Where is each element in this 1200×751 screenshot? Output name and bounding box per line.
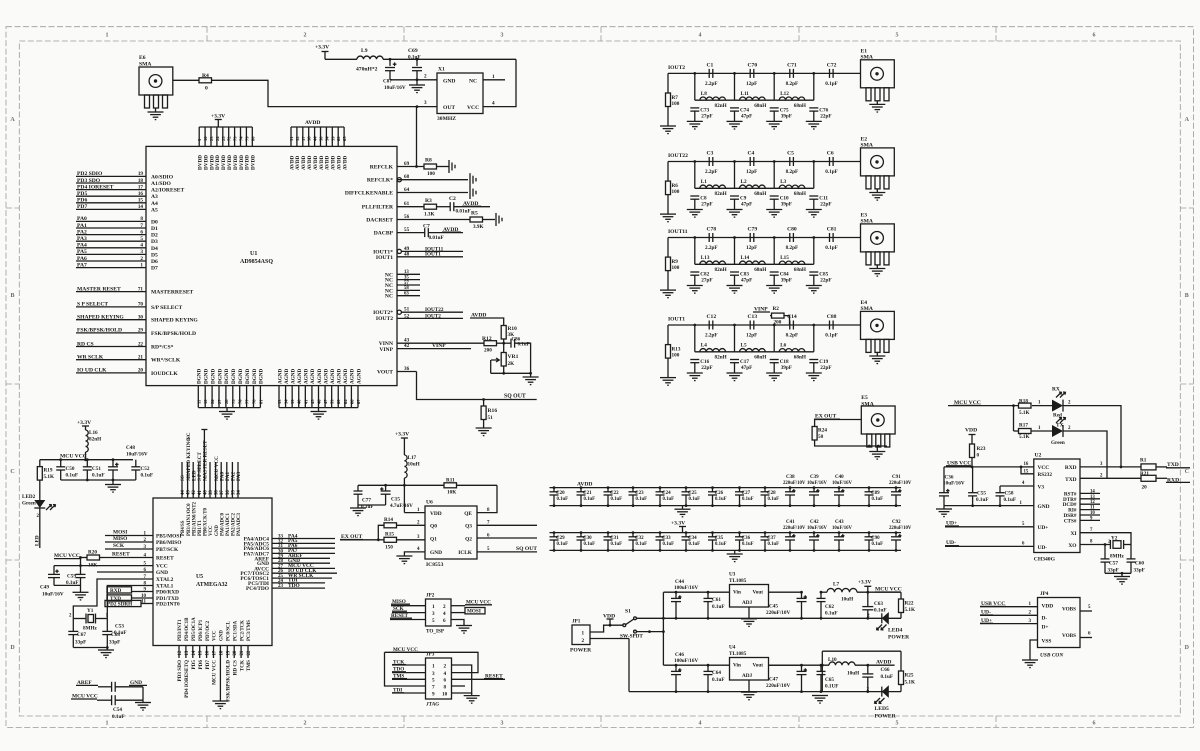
svg-text:PD7/OC2: PD7/OC2 [206, 620, 211, 641]
ground [806, 372, 822, 374]
svg-text:0.1uF: 0.1uF [557, 497, 569, 502]
svg-text:2: 2 [140, 256, 143, 262]
svg-text:C31: C31 [610, 536, 619, 541]
svg-text:18: 18 [138, 178, 144, 184]
svg-text:0.1UF: 0.1UF [825, 684, 838, 690]
svg-text:L2: L2 [741, 179, 747, 185]
svg-text:39pF: 39pF [781, 278, 792, 284]
wire [325, 58, 357, 60]
svg-text:0.1uF: 0.1uF [408, 54, 421, 60]
svg-text:AVDD: AVDD [342, 155, 348, 170]
svg-text:D: D [10, 645, 15, 651]
svg-text:XI: XI [1071, 531, 1077, 537]
inductor L14 68nH [740, 261, 766, 264]
svg-text:JP2: JP2 [426, 593, 435, 599]
U1 AGND pins [279, 407, 358, 409]
svg-text:DGND: DGND [238, 368, 244, 384]
U6 pin 5 ICLK [477, 551, 537, 553]
svg-text:41: 41 [198, 490, 203, 495]
wire [39, 508, 41, 548]
svg-text:TXD: TXD [1167, 462, 1179, 468]
U5 pin 44 PB4/SS [181, 462, 183, 498]
U5 pin 18 GND [219, 646, 221, 659]
ground [687, 120, 703, 122]
svg-text:AGND: AGND [277, 368, 283, 384]
svg-text:0.1uF: 0.1uF [584, 497, 596, 502]
svg-text:C60: C60 [1135, 561, 1144, 567]
svg-text:29: 29 [138, 328, 144, 334]
svg-text:PA6: PA6 [77, 256, 87, 262]
svg-text:48: 48 [404, 252, 410, 258]
svg-text:LED5: LED5 [875, 706, 890, 712]
wire [437, 206, 451, 208]
svg-text:40: 40 [297, 399, 302, 404]
svg-text:4: 4 [492, 101, 495, 107]
wire [1105, 572, 1131, 574]
svg-text:D-: D- [1042, 616, 1048, 622]
svg-text:10: 10 [203, 136, 208, 141]
capacitor C72 0.1pF [829, 69, 831, 78]
inductor L5 68nH [740, 349, 766, 352]
svg-text:PC1/SDA: PC1/SDA [233, 620, 238, 641]
capacitor C50 0.1uF [60, 460, 62, 467]
svg-text:68nH: 68nH [794, 267, 806, 273]
svg-text:A0/SDIO: A0/SDIO [151, 174, 174, 180]
svg-text:52: 52 [404, 313, 410, 319]
capacitor C42 10uF/16V [813, 533, 815, 537]
svg-text:5: 5 [432, 678, 435, 684]
svg-text:NC: NC [385, 294, 393, 300]
wire decoupling rail [550, 532, 902, 534]
svg-text:33pF: 33pF [1108, 568, 1119, 574]
U1 pin 18 A1/SDO [76, 182, 146, 184]
svg-text:65: 65 [342, 136, 347, 141]
svg-text:69: 69 [404, 161, 410, 167]
ground [766, 120, 782, 122]
svg-text:28: 28 [224, 399, 229, 404]
svg-text:39: 39 [290, 399, 295, 404]
resistor R15 150 [378, 539, 384, 541]
svg-text:MISO: MISO [113, 536, 127, 542]
inductor L2 68nH [740, 185, 766, 188]
svg-text:B: B [10, 293, 14, 299]
svg-text:S1: S1 [625, 609, 631, 615]
svg-text:R1: R1 [1140, 458, 1147, 464]
svg-text:3.9K: 3.9K [473, 224, 484, 230]
svg-text:+3.3V: +3.3V [671, 521, 685, 527]
svg-text:C22: C22 [610, 491, 619, 496]
svg-text:C43: C43 [835, 520, 844, 525]
ground [727, 120, 743, 122]
svg-text:PB4/SS: PB4/SS [181, 520, 186, 536]
svg-text:27pF: 27pF [701, 202, 712, 208]
svg-text:OUT: OUT [443, 105, 455, 111]
svg-text:71: 71 [138, 286, 144, 292]
inductor L10 10uH [829, 662, 855, 665]
svg-text:73: 73 [233, 136, 238, 141]
svg-text:22pF: 22pF [820, 113, 831, 119]
svg-text:RESET: RESET [156, 556, 174, 562]
resistor R25 5.1K [900, 651, 902, 671]
svg-text:PB0/XCK/T0: PB0/XCK/T0 [204, 507, 209, 536]
wire filter shunt drops [694, 238, 696, 265]
ground [1121, 573, 1123, 576]
svg-text:PB6/MISO: PB6/MISO [156, 540, 181, 546]
wire [515, 343, 531, 373]
capacitor C86 0.1uF [510, 339, 512, 348]
svg-text:16: 16 [1024, 462, 1029, 467]
ground [155, 108, 157, 112]
svg-text:L6: L6 [780, 343, 786, 349]
svg-text:IO UD CLK: IO UD CLK [77, 368, 107, 374]
svg-text:76: 76 [238, 399, 243, 404]
svg-text:ICLK: ICLK [458, 550, 473, 556]
svg-text:33pF: 33pF [75, 640, 86, 646]
wire [857, 591, 901, 593]
capacitor C80 8.2pF [789, 233, 791, 242]
JP4 pin 3 [980, 623, 1038, 625]
svg-text:5: 5 [896, 721, 899, 727]
wire output loop [769, 664, 830, 666]
svg-text:4: 4 [699, 721, 702, 727]
capacitor C89 0.1uF [868, 488, 870, 492]
capacitor C73 27pF [690, 107, 699, 109]
svg-text:PD5: PD5 [191, 660, 197, 670]
svg-text:81: 81 [258, 399, 263, 404]
wire [636, 617, 901, 619]
svg-text:77: 77 [245, 399, 250, 404]
U1 pin 70 S/P SELECT [76, 306, 146, 308]
svg-text:RD CS: RD CS [232, 660, 238, 676]
capacitor C52 0.1uF [135, 460, 137, 467]
inductor L6 68nH [779, 349, 805, 352]
svg-text:5: 5 [896, 33, 899, 39]
svg-text:44: 44 [313, 136, 318, 141]
capacitor C43 10uF/16V [838, 533, 840, 537]
capacitor C3 2.2pF [708, 157, 710, 166]
capacitor C29 0.1uF [553, 533, 555, 537]
svg-text:S P SELECT: S P SELECT [77, 302, 108, 308]
svg-text:R16: R16 [488, 408, 498, 414]
svg-text:10uF/16V: 10uF/16V [807, 481, 828, 486]
wire [61, 479, 136, 481]
svg-text:TXD: TXD [1065, 477, 1076, 483]
svg-text:82nH: 82nH [715, 355, 727, 361]
svg-text:0.1uF: 0.1uF [689, 542, 701, 547]
capacitor C31 0.1uF [607, 533, 609, 537]
svg-text:C55: C55 [977, 491, 986, 497]
svg-text:17: 17 [213, 650, 218, 655]
capacitor C71 8.2pF [789, 69, 791, 78]
svg-text:L1: L1 [701, 179, 707, 185]
svg-text:C69: C69 [408, 48, 418, 54]
capacitor C30 0.1uF [580, 533, 582, 537]
svg-text:R3: R3 [425, 198, 432, 204]
svg-text:34: 34 [237, 490, 242, 495]
potentiometer VR1 2K [501, 353, 506, 367]
resistor R5 3.9K [470, 217, 483, 222]
wire filter shunt drops [694, 162, 696, 189]
inductor L15 68nH [779, 261, 805, 264]
wire [385, 652, 479, 672]
capacitor C12 2.2pF [708, 321, 710, 330]
capacitor C20 0.1uF [553, 488, 555, 492]
svg-text:10uF/16V: 10uF/16V [126, 452, 148, 458]
wire [437, 166, 450, 168]
capacitor C79 12pF [749, 233, 751, 242]
svg-text:C26: C26 [715, 491, 724, 496]
U2 pin 3 RXD [1080, 466, 1141, 468]
svg-text:23: 23 [278, 584, 284, 589]
capacitor C51 0.1uF [86, 460, 88, 467]
ground [660, 213, 676, 215]
capacitor C25 0.1uF [685, 488, 687, 492]
svg-text:IOUDCLK: IOUDCLK [151, 371, 178, 377]
capacitor C23 0.1uF [632, 488, 634, 492]
svg-text:58: 58 [404, 286, 409, 291]
svg-text:PA3/ADC3: PA3/ADC3 [237, 512, 242, 536]
capacitor C39 10uF/16V [813, 488, 815, 492]
svg-text:E2: E2 [861, 137, 868, 143]
svg-text:2.2pF: 2.2pF [705, 333, 718, 339]
wire GND pin [97, 571, 153, 573]
svg-text:+3.3V: +3.3V [211, 114, 225, 120]
svg-text:8.2pF: 8.2pF [786, 169, 799, 175]
wire filter main line [668, 324, 861, 326]
wire [503, 366, 505, 373]
svg-text:10uF/16V: 10uF/16V [42, 592, 64, 598]
svg-text:1: 1 [432, 604, 435, 610]
svg-text:8MHz: 8MHz [83, 626, 98, 632]
svg-text:19: 19 [138, 171, 144, 177]
capacitor C70 12pF [749, 69, 751, 78]
ground [530, 373, 532, 377]
ground [660, 289, 676, 291]
inductor L8 82nH [700, 97, 726, 100]
svg-text:68nH: 68nH [794, 103, 806, 109]
wire [769, 591, 802, 593]
ground [766, 372, 782, 374]
svg-text:C27: C27 [742, 491, 751, 496]
capacitor C91 220uF/10V [895, 488, 897, 492]
svg-text:A5: A5 [151, 207, 158, 213]
ground [456, 625, 472, 627]
svg-text:C: C [10, 469, 14, 475]
capacitor C40 10uF/16V [838, 488, 840, 492]
U2 pin 7 XI [1080, 533, 1131, 545]
wire [748, 680, 750, 692]
svg-text:MASTERRESET: MASTERRESET [151, 290, 194, 296]
capacitor C21 0.1uF [580, 488, 582, 492]
svg-text:VINP: VINP [432, 343, 446, 349]
svg-text:11: 11 [1090, 506, 1095, 511]
svg-text:16: 16 [206, 650, 211, 655]
capacitor C85 22pF [809, 271, 818, 273]
net PD2 SDRH [105, 600, 141, 606]
svg-text:D1: D1 [151, 226, 158, 232]
wire [667, 271, 669, 291]
svg-text:LED2: LED2 [22, 494, 36, 500]
svg-text:C61: C61 [712, 597, 721, 603]
svg-text:A3: A3 [151, 194, 158, 200]
wire refclk from oscillator [416, 107, 418, 167]
svg-text:0.1uF: 0.1uF [663, 542, 675, 547]
U1 pin 21 WR*/SCLK [76, 359, 146, 361]
net RXD [107, 587, 132, 593]
net TXD [107, 595, 132, 601]
svg-text:L7: L7 [833, 582, 839, 588]
svg-text:TL1085: TL1085 [729, 578, 747, 584]
svg-text:D: D [1185, 645, 1190, 651]
svg-text:PA3: PA3 [77, 236, 87, 242]
ground [727, 372, 743, 374]
svg-text:42: 42 [404, 343, 410, 349]
svg-text:TDO: TDO [288, 583, 300, 589]
ground [734, 550, 736, 554]
svg-text:100: 100 [672, 101, 680, 107]
svg-text:7: 7 [140, 223, 143, 229]
crystal Y1 8MHz [73, 579, 153, 619]
wire [489, 318, 504, 326]
svg-text:13: 13 [1090, 495, 1095, 500]
ground [464, 695, 480, 697]
connector JP3 JTAG [426, 658, 452, 699]
ground [106, 648, 108, 651]
svg-text:1: 1 [106, 721, 109, 727]
resistor R20 10K [81, 557, 88, 559]
svg-text:C91: C91 [892, 475, 901, 480]
resistor R2 200 [770, 315, 772, 317]
svg-text:0.1uF: 0.1uF [872, 542, 884, 547]
svg-text:3: 3 [424, 100, 427, 106]
capacitor C36 0.1uF [739, 533, 741, 537]
svg-text:54: 54 [324, 136, 329, 141]
svg-text:PB2/AIN0/INT2: PB2/AIN0/INT2 [192, 501, 197, 536]
svg-text:0.1uF: 0.1uF [976, 497, 989, 503]
svg-text:0.1uF: 0.1uF [881, 674, 894, 680]
U1 pin 30 SHAPED KEYING [76, 319, 146, 321]
svg-text:C62: C62 [825, 604, 834, 610]
ground [142, 700, 144, 702]
svg-text:RD*/CS*: RD*/CS* [151, 345, 174, 351]
svg-text:MCU VCC: MCU VCC [212, 660, 218, 685]
capacitor C64 0.1uF [707, 665, 709, 671]
svg-text:PD2/INT0: PD2/INT0 [156, 602, 180, 608]
svg-text:0.1uF: 0.1uF [874, 608, 887, 614]
svg-text:100: 100 [672, 189, 680, 195]
wire [815, 440, 887, 446]
U2 pin 2 TXD [1080, 477, 1141, 479]
svg-text:1: 1 [106, 33, 109, 39]
svg-text:0.1pF: 0.1pF [825, 169, 838, 175]
svg-text:C49: C49 [40, 585, 49, 591]
svg-text:L17: L17 [408, 455, 417, 461]
ground [687, 372, 703, 374]
svg-text:C6: C6 [827, 151, 834, 157]
svg-text:C20: C20 [556, 491, 565, 496]
svg-text:D6: D6 [151, 259, 158, 265]
svg-text:100: 100 [427, 171, 435, 177]
wire pin4 VCC [483, 59, 516, 106]
svg-text:39pF: 39pF [781, 113, 792, 119]
svg-text:Vin: Vin [733, 663, 741, 669]
svg-text:AGND: AGND [290, 368, 296, 384]
capacitor C54 0.1uF [97, 699, 112, 701]
svg-text:C59: C59 [67, 574, 76, 580]
wire [814, 419, 861, 421]
svg-text:C13: C13 [748, 314, 758, 320]
svg-text:MASTER RESET: MASTER RESET [203, 440, 209, 481]
capacitor C83 47pF [730, 271, 739, 273]
capacitor C66 0.1uF [867, 665, 869, 674]
regulator U4 TL1085 [730, 658, 769, 681]
wire [769, 664, 802, 666]
resistor R17 5.1K [1019, 429, 1032, 434]
U6 pin 3 Q1 [397, 539, 426, 541]
U6 pin 7 Q3 [477, 524, 537, 526]
ground [727, 209, 743, 211]
ground [396, 555, 412, 557]
svg-text:R5: R5 [471, 211, 478, 217]
svg-text:6: 6 [140, 229, 143, 235]
svg-text:VSS: VSS [1042, 638, 1052, 644]
svg-text:JP1: JP1 [572, 619, 581, 625]
svg-text:E1: E1 [861, 48, 868, 54]
ground [682, 506, 684, 510]
svg-text:20: 20 [138, 368, 144, 374]
svg-text:47pF: 47pF [741, 365, 752, 371]
U5 pin 43 PB3/AIN1/OC0 [187, 462, 189, 498]
capacitor C15 4.7uF/16V [385, 485, 387, 491]
svg-text:WR*/SCLK: WR*/SCLK [151, 358, 181, 364]
svg-text:AD9854ASQ: AD9854ASQ [240, 259, 273, 265]
svg-text:100: 100 [672, 265, 680, 271]
svg-text:0.1uF: 0.1uF [112, 714, 125, 720]
svg-text:R14: R14 [384, 517, 393, 523]
wire [1063, 431, 1107, 478]
svg-text:PD3 SDO: PD3 SDO [177, 660, 183, 681]
U1 pin 15 A4 [76, 202, 146, 204]
resistor R13 100 [667, 325, 669, 345]
svg-text:IOUT22: IOUT22 [668, 153, 688, 159]
svg-text:150: 150 [385, 545, 393, 551]
U6 pin 2 Q0 [397, 524, 426, 526]
svg-text:DGND: DGND [210, 368, 216, 384]
svg-text:0.1uF: 0.1uF [611, 542, 623, 547]
svg-text:44: 44 [181, 490, 186, 495]
svg-text:D+: D+ [1042, 624, 1049, 630]
svg-text:C39: C39 [810, 475, 819, 480]
svg-text:100uF/16V: 100uF/16V [674, 658, 698, 664]
svg-text:100: 100 [672, 353, 680, 359]
svg-text:C41: C41 [786, 520, 795, 525]
svg-text:RXD: RXD [1065, 465, 1077, 471]
svg-text:39pF: 39pF [781, 365, 792, 371]
svg-text:ADJ: ADJ [742, 673, 752, 679]
resistor R10 3K [501, 326, 506, 340]
capacitor C19 22pF [809, 359, 818, 361]
svg-text:26: 26 [210, 399, 215, 404]
svg-text:8MHz: 8MHz [1110, 554, 1125, 560]
ground [766, 285, 782, 287]
capacitor C47 220uF/10V [801, 665, 803, 671]
wire [971, 458, 973, 467]
svg-text:6: 6 [1093, 721, 1096, 727]
svg-text:12pF: 12pF [746, 333, 757, 339]
svg-text:27pF: 27pF [701, 278, 712, 284]
svg-text:41: 41 [303, 399, 308, 404]
svg-text:30MHZ: 30MHZ [437, 116, 456, 122]
